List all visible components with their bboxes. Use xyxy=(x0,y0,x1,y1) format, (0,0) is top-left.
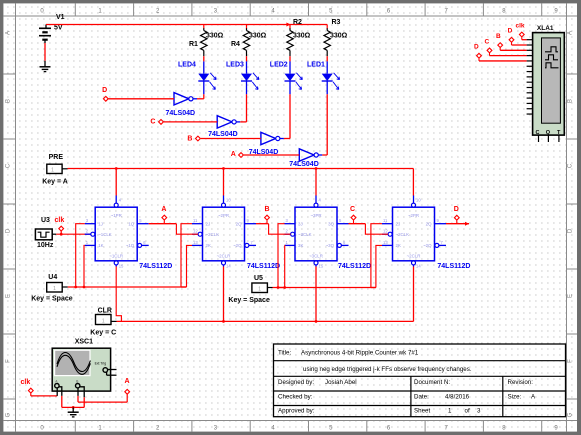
wire JK rail to U2 J xyxy=(181,224,192,287)
ground under battery xyxy=(40,66,51,68)
svg-text:~2PR: ~2PR xyxy=(218,213,229,218)
U1 clear pin xyxy=(114,261,118,265)
wire U1 clear to CLR rail xyxy=(116,267,121,322)
logic analyzer XLA1 xyxy=(533,33,565,136)
svg-text:using neg edge triggered j-k F: using neg edge triggered j-k FFs observe… xyxy=(303,366,472,373)
U1 K pin xyxy=(85,244,96,246)
scope A- lead xyxy=(59,387,62,396)
LED LED2 xyxy=(289,61,291,73)
svg-text:74LS112D: 74LS112D xyxy=(247,263,280,270)
wire JK rail to U4 K xyxy=(376,245,382,287)
svg-text:B: B xyxy=(568,99,574,103)
wire JK rail connector gap 2 xyxy=(278,287,285,289)
svg-text:~3CLK: ~3CLK xyxy=(298,232,312,237)
svg-text:1: 1 xyxy=(53,286,56,292)
flip-flop U4 74LS112D body xyxy=(393,207,435,261)
LED LED1 xyxy=(326,61,328,73)
svg-text:74LS112D: 74LS112D xyxy=(139,263,172,270)
svg-text:clk: clk xyxy=(516,23,525,30)
wire R3 to LED1 xyxy=(326,56,328,61)
connector B to XLA1 pin 3 xyxy=(498,43,503,48)
resistor R4 330 ohm xyxy=(246,25,248,29)
svg-text:C: C xyxy=(6,163,12,168)
U2 K pin xyxy=(192,244,203,246)
connector D to XLA1 pin 2 xyxy=(509,37,514,42)
svg-text:74LS112D: 74LS112D xyxy=(437,263,470,270)
U3 K pin xyxy=(285,244,296,246)
svg-text:G: G xyxy=(568,412,574,417)
svg-text:14: 14 xyxy=(226,264,231,269)
LED LED3 xyxy=(246,61,248,73)
svg-text:Key = Space: Key = Space xyxy=(31,295,73,302)
svg-text:D: D xyxy=(454,206,459,213)
wire A to U4 input xyxy=(244,154,300,156)
svg-text:10Hz: 10Hz xyxy=(37,242,54,249)
U2 Q pin xyxy=(245,223,257,225)
svg-text:~2Q: ~2Q xyxy=(233,243,242,248)
U2 notQ pin xyxy=(245,243,249,247)
wire PRE rail to U4 preset xyxy=(412,169,414,196)
svg-text:~2CLK: ~2CLK xyxy=(396,232,410,237)
svg-text:~3CLR: ~3CLR xyxy=(309,253,323,258)
svg-text:Date:: Date: xyxy=(414,393,429,400)
svg-text:Checked by:: Checked by: xyxy=(278,393,313,400)
wire JK rail connector gap 3 xyxy=(371,287,376,289)
svg-text:XSC1: XSC1 xyxy=(75,339,93,346)
U3 notQ pin xyxy=(337,243,341,247)
wire U2 clear to CLR rail xyxy=(223,267,225,322)
svg-text:~1CLR: ~1CLR xyxy=(109,253,123,258)
wire PRE rail to U1 preset xyxy=(115,169,117,196)
node B xyxy=(265,215,270,220)
svg-text:Key = C: Key = C xyxy=(90,329,116,336)
wire PRE rail to U2 preset xyxy=(223,169,225,196)
svg-text:2Q: 2Q xyxy=(236,221,242,226)
inverter U4 74LS04D xyxy=(299,149,314,161)
wire JK rail connector gap 1 xyxy=(181,286,187,288)
svg-text:R2: R2 xyxy=(293,19,302,26)
U3 J pin xyxy=(285,223,296,225)
svg-text:LED2: LED2 xyxy=(270,61,288,68)
svg-text:Josiah Abel: Josiah Abel xyxy=(325,379,357,386)
switch U5 Key=Space xyxy=(252,283,268,293)
svg-text:15: 15 xyxy=(319,264,324,269)
svg-text:~1PR: ~1PR xyxy=(111,213,122,218)
U2 clear pin xyxy=(222,261,226,265)
svg-text:14: 14 xyxy=(416,264,421,269)
connector clk to XLA1 pin 1 xyxy=(519,32,524,37)
svg-text:10: 10 xyxy=(416,198,421,203)
wire D to U1 input xyxy=(109,98,175,100)
wire CLR rail xyxy=(117,320,414,322)
svg-text:4/8/2016: 4/8/2016 xyxy=(445,393,470,400)
svg-text:Size:: Size: xyxy=(508,393,522,400)
svg-text:C: C xyxy=(536,130,540,136)
node D xyxy=(454,215,459,220)
resistor R2 330 ohm xyxy=(289,25,291,29)
svg-text:~2CLR: ~2CLR xyxy=(407,253,421,258)
U2 J pin xyxy=(192,223,203,225)
wire Vcc top rail xyxy=(46,24,290,26)
svg-text:A: A xyxy=(231,151,236,158)
svg-text:330Ω: 330Ω xyxy=(249,32,267,39)
node C xyxy=(351,215,356,220)
wire U3 Q output xyxy=(349,223,366,225)
wire R1 to LED4 xyxy=(203,56,205,61)
wire U2 Q to U3 CLK xyxy=(269,224,291,235)
XLA1 left pins xyxy=(527,39,533,41)
wire U2 Q output xyxy=(256,223,269,225)
wire C to U2 input xyxy=(164,121,218,123)
svg-text:~2Q: ~2Q xyxy=(423,243,432,248)
input connector D to U1 xyxy=(103,96,108,101)
battery V1 5V xyxy=(45,25,47,29)
svg-text:clk: clk xyxy=(55,217,65,224)
svg-text:12: 12 xyxy=(193,229,198,234)
inverter U2 74LS04D xyxy=(217,116,232,128)
svg-text:1Q: 1Q xyxy=(128,221,134,226)
wire clk to scope A+ xyxy=(30,393,32,396)
connector C to XLA1 pin 4 xyxy=(487,48,492,53)
svg-text:2J: 2J xyxy=(396,221,401,226)
switch U4 Key=Space xyxy=(47,283,63,293)
U4 preset pin xyxy=(413,195,415,203)
svg-text:D: D xyxy=(508,28,513,35)
wire U1 Q to U2 CLK xyxy=(176,224,198,235)
svg-text:C: C xyxy=(150,118,155,125)
svg-text:1: 1 xyxy=(448,407,452,414)
svg-text:13: 13 xyxy=(193,240,198,245)
svg-text:F: F xyxy=(568,359,574,363)
svg-text:clk: clk xyxy=(21,379,31,386)
svg-text:U5: U5 xyxy=(254,275,263,282)
U4 Q pin xyxy=(435,223,447,225)
svg-text:15: 15 xyxy=(119,264,124,269)
svg-text:B: B xyxy=(187,135,192,142)
svg-text:1: 1 xyxy=(258,287,261,293)
svg-text:3: 3 xyxy=(477,407,481,414)
svg-text:B: B xyxy=(265,206,270,213)
U4 CLK pin xyxy=(382,233,388,235)
wire node A to scope B+ xyxy=(78,401,127,403)
connector A at scope xyxy=(125,389,130,394)
input connector C to U2 xyxy=(159,120,164,125)
svg-text:1K: 1K xyxy=(98,243,103,248)
U1 preset pin xyxy=(115,195,117,203)
svg-text:R3: R3 xyxy=(332,19,341,26)
wire B to U3 input xyxy=(201,138,261,140)
svg-text:330Ω: 330Ω xyxy=(330,32,348,39)
U1 notQ pin xyxy=(138,243,142,247)
svg-text:2K: 2K xyxy=(206,243,211,248)
svg-text:~1CLK: ~1CLK xyxy=(98,232,112,237)
svg-text:Key = A: Key = A xyxy=(42,178,68,185)
svg-text:Ext Trig: Ext Trig xyxy=(95,362,107,366)
svg-text:V1: V1 xyxy=(56,14,65,21)
svg-text:12: 12 xyxy=(383,229,388,234)
svg-text:B: B xyxy=(6,99,12,103)
svg-text:74LS112D: 74LS112D xyxy=(338,263,371,270)
svg-text:Q: Q xyxy=(546,130,551,136)
svg-text:D: D xyxy=(102,87,107,94)
svg-text:330Ω: 330Ω xyxy=(293,32,311,39)
wire R4 to LED3 xyxy=(246,56,248,61)
svg-text:Revision:: Revision: xyxy=(508,379,534,386)
wire PRE rail xyxy=(68,168,414,170)
svg-text:A: A xyxy=(161,206,166,213)
svg-text:~1Q: ~1Q xyxy=(126,243,135,248)
U2 CLK pin xyxy=(192,233,198,235)
svg-text:3Q: 3Q xyxy=(328,221,334,226)
svg-text:E: E xyxy=(6,294,12,298)
U2 preset pin xyxy=(223,195,225,203)
wire U4 to U1 K xyxy=(83,245,86,287)
input connector A to U4 xyxy=(239,153,244,158)
wire JK rail to U2 K xyxy=(187,245,193,287)
svg-text:Title:: Title: xyxy=(278,350,291,357)
wire U4 output to LED1 xyxy=(322,154,327,156)
svg-text:Sheet: Sheet xyxy=(414,407,430,414)
wire JK rail to U4 J xyxy=(371,224,382,288)
connector D to XLA1 pin 5 xyxy=(477,53,482,58)
svg-text:LED4: LED4 xyxy=(178,61,196,68)
svg-text:74LS04D: 74LS04D xyxy=(208,131,238,138)
svg-text:1: 1 xyxy=(51,168,54,174)
connector clk at scope xyxy=(28,388,33,393)
svg-text:R4: R4 xyxy=(231,41,240,48)
scope B- lead xyxy=(80,387,84,398)
svg-text:~2CLK: ~2CLK xyxy=(206,232,220,237)
svg-text:3K: 3K xyxy=(298,243,303,248)
svg-text:Asynchronous 4-bit Ripple Coun: Asynchronous 4-bit Ripple Counter wk 7#1 xyxy=(301,350,419,357)
svg-text:C: C xyxy=(485,39,490,46)
svg-text:A: A xyxy=(125,378,130,385)
wire U3 Q to U4 CLK xyxy=(365,224,388,235)
LED LED4 xyxy=(203,61,205,73)
wire PRE rail to U3 preset xyxy=(315,169,317,196)
svg-text:D: D xyxy=(474,43,479,50)
input connector B to U3 xyxy=(196,136,201,141)
svg-text:Document N:: Document N: xyxy=(414,379,450,386)
svg-text:~2PR: ~2PR xyxy=(408,213,419,218)
scope channel A terminal xyxy=(55,384,59,388)
svg-text:10: 10 xyxy=(226,198,231,203)
svg-text:A: A xyxy=(6,31,12,35)
switch PRE Key=A xyxy=(47,164,62,173)
svg-text:1J: 1J xyxy=(98,221,103,226)
wire U5 rail xyxy=(273,287,376,289)
svg-text:D: D xyxy=(568,228,574,233)
U3 Q pin xyxy=(337,223,349,225)
svg-text:13: 13 xyxy=(383,240,388,245)
wire JK rail to U3 J xyxy=(278,224,285,288)
svg-text:C: C xyxy=(350,206,355,213)
U1 CLK pin xyxy=(85,233,91,235)
svg-text:A: A xyxy=(568,31,574,35)
wire U4 rail xyxy=(68,286,187,288)
svg-text:D: D xyxy=(6,228,12,233)
svg-text:Approved by:: Approved by: xyxy=(278,407,315,414)
wire U3 to FF1 CLK xyxy=(52,233,56,235)
flip-flop U2 74LS112D body xyxy=(203,207,245,261)
svg-text:LED1: LED1 xyxy=(307,61,325,68)
ground under scope xyxy=(72,407,74,412)
svg-text:XLA1: XLA1 xyxy=(537,25,554,32)
svg-text:of: of xyxy=(465,407,470,414)
wire U3 output to LED2 xyxy=(284,138,290,140)
U1 Q pin xyxy=(137,223,149,225)
flip-flop U3 74LS112D body xyxy=(295,207,337,261)
svg-text:74LS04D: 74LS04D xyxy=(289,161,319,168)
svg-text:U3: U3 xyxy=(41,217,50,224)
U4 notQ pin xyxy=(435,243,439,247)
U4 K pin xyxy=(382,244,393,246)
svg-text:LED3: LED3 xyxy=(226,61,244,68)
svg-text:~3PR: ~3PR xyxy=(310,213,321,218)
wire R2 to LED2 xyxy=(289,56,291,61)
svg-text:2K: 2K xyxy=(396,243,401,248)
svg-text:R1: R1 xyxy=(189,41,198,48)
svg-text:1: 1 xyxy=(102,319,105,325)
svg-text:Designed by:: Designed by: xyxy=(278,379,314,386)
wire JK rail to U3 K xyxy=(284,245,286,287)
title block xyxy=(274,344,566,417)
wire battery minus to ground xyxy=(44,43,46,61)
svg-text:330Ω: 330Ω xyxy=(206,32,224,39)
svg-text:U4: U4 xyxy=(48,274,57,281)
svg-text:11: 11 xyxy=(193,218,198,223)
node A xyxy=(162,215,167,220)
resistor R1 330 ohm xyxy=(203,25,205,29)
svg-text:11: 11 xyxy=(383,218,388,223)
U1 J pin xyxy=(85,223,96,225)
U3 CLK pin xyxy=(285,233,291,235)
wire U1 output to LED4 xyxy=(197,98,204,100)
U4 J pin xyxy=(382,223,393,225)
wire U4 clear to CLR rail xyxy=(413,267,415,322)
U3 clear pin xyxy=(314,261,318,265)
scope channel B terminal xyxy=(76,384,80,388)
wire U3 clear to CLR rail xyxy=(315,267,317,322)
border frame xyxy=(0,0,581,3)
svg-text:3J: 3J xyxy=(298,221,303,226)
inverter U3 74LS04D xyxy=(261,132,276,144)
oscilloscope XSC1 xyxy=(52,348,110,391)
wire U2 output to LED3 xyxy=(240,121,246,123)
clock source U3 10Hz xyxy=(35,229,52,240)
wire U4FF Q to node D xyxy=(446,223,469,225)
switch CLR Key=C xyxy=(96,315,112,325)
flip-flop U1 74LS112D body xyxy=(95,207,137,261)
U4 clear pin xyxy=(412,261,416,265)
svg-text:PRE: PRE xyxy=(49,154,64,161)
svg-text:F: F xyxy=(6,359,12,363)
svg-text:C: C xyxy=(568,163,574,168)
svg-text:E: E xyxy=(568,294,574,298)
wire U1 Q output xyxy=(149,223,177,225)
wire scope ground rail xyxy=(62,406,84,408)
svg-text:G: G xyxy=(6,412,12,417)
svg-text:5V: 5V xyxy=(54,25,63,32)
resistor R3 330 ohm xyxy=(326,25,328,29)
connector clk at U3 xyxy=(59,226,64,231)
svg-text:2Q: 2Q xyxy=(426,221,432,226)
wire U4 to U1 J xyxy=(76,224,85,287)
svg-text:B: B xyxy=(496,33,501,40)
scope B+ lead xyxy=(77,388,79,396)
U3 preset pin xyxy=(315,195,317,203)
svg-text:74LS04D: 74LS04D xyxy=(166,110,196,117)
svg-text:Key = Space: Key = Space xyxy=(228,297,270,304)
svg-text:~2CLR: ~2CLR xyxy=(217,253,231,258)
inverter U1 74LS04D xyxy=(174,93,189,105)
svg-text:CLR: CLR xyxy=(98,308,112,315)
svg-text:~3Q: ~3Q xyxy=(326,243,335,248)
svg-text:2J: 2J xyxy=(206,221,211,226)
